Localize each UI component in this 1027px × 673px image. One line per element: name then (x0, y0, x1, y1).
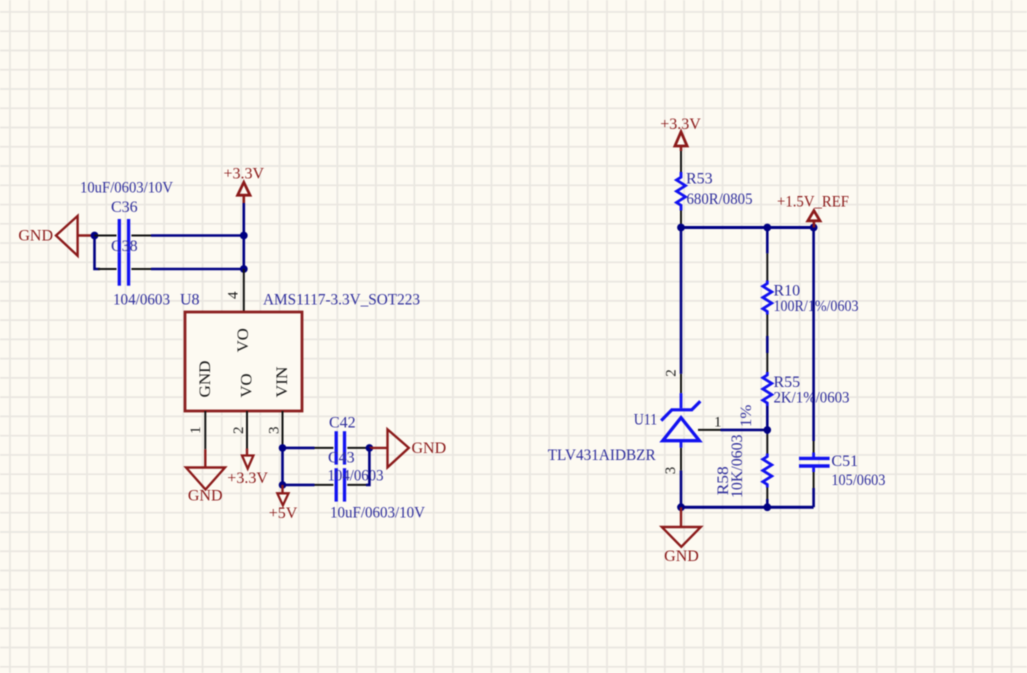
wire between R10 and R55 (766, 336, 769, 353)
resistor R53 (677, 151, 686, 228)
svg-text:VIN: VIN (274, 366, 291, 397)
svg-text:1%: 1% (738, 405, 755, 427)
junction bus at C51 branch (810, 224, 818, 232)
svg-text:C51: C51 (831, 453, 858, 470)
svg-text:C36: C36 (111, 199, 138, 216)
svg-text:2K/1%/0603: 2K/1%/0603 (774, 390, 850, 407)
power port +1.5V_REF (777, 194, 849, 228)
U8 pin 2 (246, 411, 248, 449)
svg-text:VO: VO (239, 374, 256, 398)
junction pin 3 / C42 row (279, 444, 287, 452)
resistor R10 (763, 228, 772, 337)
svg-text:680R/0805: 680R/0805 (687, 191, 753, 208)
junction +3.3V rail at C36 row (240, 232, 248, 240)
junction at GND / C36 / C38 node (91, 232, 99, 240)
svg-text:C43: C43 (328, 450, 355, 467)
svg-text:GND: GND (18, 228, 53, 245)
svg-text:2: 2 (664, 369, 680, 377)
capacitor C38 (98, 252, 151, 285)
ground symbol under pin 1 (186, 449, 225, 504)
svg-text:2: 2 (231, 427, 247, 435)
svg-text:GND: GND (664, 548, 699, 565)
junction bus at R10 (763, 224, 771, 232)
svg-text:VO: VO (235, 328, 252, 352)
capacitor C43 (315, 468, 367, 501)
junction C42 right / GND (366, 444, 374, 452)
U11 pin 2 (cathode) (680, 374, 682, 393)
wire C43 right up to GND node (366, 448, 369, 485)
wire C38 right to +3.3V rail (151, 268, 244, 271)
power port +3.3V above U8 (224, 165, 265, 203)
U11 pin 3 (anode) (680, 448, 682, 471)
svg-text:GND: GND (197, 361, 214, 398)
svg-text:U8: U8 (180, 292, 200, 309)
svg-text:10K/0603: 10K/0603 (729, 435, 746, 499)
junction +3.3V rail at C38 row (240, 265, 248, 273)
wire C43 node to C43 (283, 484, 315, 487)
svg-text:GND: GND (412, 440, 447, 457)
svg-text:105/0603: 105/0603 (831, 472, 885, 489)
svg-text:R55: R55 (774, 374, 801, 391)
svg-text:TLV431AIDBZR: TLV431AIDBZR (548, 447, 656, 464)
ground symbol right of C42 (369, 429, 446, 467)
wire C36 right to +3.3V rail (151, 234, 244, 237)
power port +3.3V under pin 2 (227, 449, 268, 487)
U11 pin 1 (ref) (698, 429, 721, 431)
wire pin3 node down to C43 row (281, 448, 284, 485)
svg-text:10uF/0603/10V: 10uF/0603/10V (80, 179, 173, 196)
svg-text:100R/1%/0603: 100R/1%/0603 (774, 298, 859, 315)
capacitor C51 (799, 441, 830, 488)
capacitor C36 (95, 219, 152, 252)
svg-text:GND: GND (188, 488, 223, 505)
svg-text:U11: U11 (634, 411, 658, 428)
capacitor C42 (315, 431, 367, 464)
svg-text:3: 3 (267, 427, 283, 435)
svg-text:1: 1 (714, 414, 722, 430)
svg-text:+3.3V: +3.3V (227, 470, 268, 487)
ground symbol bottom right (662, 507, 701, 565)
bottom bus wire (681, 506, 814, 509)
junction C43 row / +5V (279, 481, 287, 489)
svg-text:1: 1 (188, 426, 204, 434)
svg-text:R10: R10 (774, 282, 801, 299)
svg-text:C38: C38 (111, 238, 138, 255)
power port +5V under pin3 node (269, 485, 298, 522)
U8 pin 1 (204, 411, 206, 449)
svg-text:104/0603: 104/0603 (113, 292, 170, 309)
wire C51 bottom to bus (812, 488, 815, 507)
svg-text:+1.5V_REF: +1.5V_REF (777, 194, 849, 211)
power port GND left of C36/C38 (18, 216, 94, 256)
wire U11 ref to R55/R58 node (721, 429, 768, 432)
wire anode down to bottom bus (680, 470, 683, 507)
wire C51 branch down (812, 228, 815, 442)
wire from GND junction down to C38 row (95, 236, 101, 270)
svg-text:3: 3 (663, 467, 679, 475)
resistor R58 (763, 430, 772, 507)
wire top bus R53 to +1.5V_REF (681, 226, 814, 229)
svg-text:4: 4 (226, 291, 242, 299)
wire +3.3V rail down to pin 4 (243, 203, 246, 269)
junction bus at R53 (677, 224, 685, 232)
svg-text:AMS1117-3.3V_SOT223: AMS1117-3.3V_SOT223 (263, 292, 420, 309)
op-amp/regulator U8 body (185, 312, 302, 411)
wire bus down to U11 cathode (680, 228, 683, 374)
U8 pin 4 (243, 269, 245, 312)
svg-text:R53: R53 (686, 171, 713, 188)
shunt reference U11 TLV431 symbol (661, 393, 700, 448)
wire pin3 node to C42 (283, 447, 315, 450)
svg-text:C42: C42 (329, 415, 356, 432)
junction bottom bus at anode (677, 503, 685, 511)
U8 pin 3 (282, 411, 284, 445)
svg-text:10uF/0603/10V: 10uF/0603/10V (330, 504, 425, 521)
power port +3.3V top right (660, 116, 701, 151)
svg-text:104/0603: 104/0603 (328, 467, 384, 484)
junction R55/R58/pin1 node (764, 426, 772, 434)
junction bottom bus at R58 (763, 503, 771, 511)
svg-text:+5V: +5V (269, 505, 298, 522)
resistor R55 (763, 353, 772, 430)
